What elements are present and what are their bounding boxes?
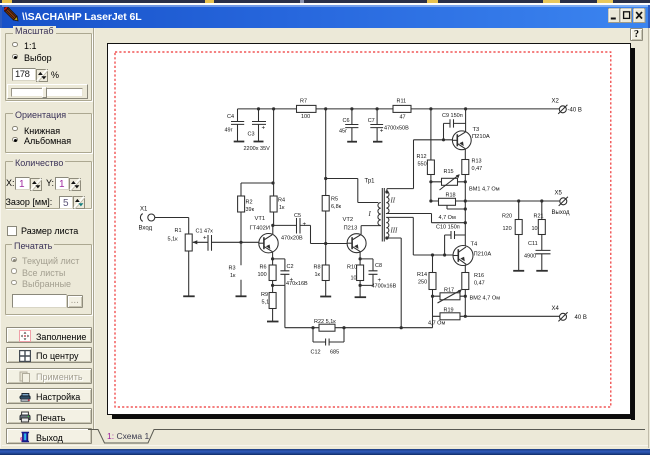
svg-text:R20: R20 xyxy=(502,214,512,220)
svg-text:5,1к: 5,1к xyxy=(168,237,179,243)
svg-text:R2: R2 xyxy=(246,200,253,206)
svg-text:4700x16В: 4700x16В xyxy=(372,284,397,290)
svg-text:+: + xyxy=(303,221,307,228)
svg-text:R6: R6 xyxy=(260,265,267,271)
svg-text:I: I xyxy=(368,211,372,218)
svg-text:П213: П213 xyxy=(344,226,358,232)
svg-text:R9: R9 xyxy=(261,292,268,298)
svg-text:С2: С2 xyxy=(287,264,294,270)
svg-text:С7: С7 xyxy=(368,118,375,124)
svg-text:550: 550 xyxy=(418,162,427,168)
svg-text:R1: R1 xyxy=(175,228,182,234)
svg-text:R15: R15 xyxy=(444,169,454,175)
svg-text:0,47: 0,47 xyxy=(472,166,483,172)
svg-text:470x20В: 470x20В xyxy=(281,236,303,242)
svg-text:X4: X4 xyxy=(552,306,560,312)
svg-text:+: + xyxy=(380,128,384,135)
svg-text:R11: R11 xyxy=(397,99,407,105)
svg-text:ВМ1 4,7 Ом: ВМ1 4,7 Ом xyxy=(469,187,500,193)
svg-text:1к: 1к xyxy=(279,205,285,211)
svg-text:С12: С12 xyxy=(311,350,321,356)
svg-text:4,7 Ом: 4,7 Ом xyxy=(439,215,456,221)
svg-text:10: 10 xyxy=(532,226,538,232)
svg-text:6,8к: 6,8к xyxy=(331,204,342,210)
svg-text:Схема 1: Схема 1 xyxy=(117,431,150,441)
svg-text:4900: 4900 xyxy=(524,254,536,260)
svg-text:+: + xyxy=(262,125,266,132)
svg-text:П210А: П210А xyxy=(472,134,490,140)
svg-text:R3: R3 xyxy=(229,266,236,272)
svg-text:1к: 1к xyxy=(230,273,236,279)
svg-text:2200x 35V: 2200x 35V xyxy=(244,146,271,152)
svg-text:R10: R10 xyxy=(347,265,357,271)
svg-text:X1: X1 xyxy=(140,207,148,213)
svg-text:1к: 1к xyxy=(315,272,321,278)
svg-text:II: II xyxy=(390,198,396,205)
svg-text:С8: С8 xyxy=(375,263,382,269)
svg-text:Выход: Выход xyxy=(552,210,570,216)
svg-text:1:: 1: xyxy=(107,431,114,441)
svg-text:ВМ2 4,7 Ом: ВМ2 4,7 Ом xyxy=(470,296,501,302)
svg-text:250: 250 xyxy=(418,280,427,286)
svg-text:R4: R4 xyxy=(278,198,285,204)
svg-text:С5: С5 xyxy=(294,213,301,219)
svg-text:R7: R7 xyxy=(300,98,307,104)
svg-text:X5: X5 xyxy=(555,191,563,197)
svg-text:45г: 45г xyxy=(339,129,347,135)
svg-text:39к: 39к xyxy=(246,207,255,213)
svg-text:С10 150п: С10 150п xyxy=(436,225,460,231)
svg-text:R17: R17 xyxy=(444,288,454,294)
svg-text:R21: R21 xyxy=(534,214,544,220)
svg-text:R12: R12 xyxy=(417,154,427,160)
svg-text:49г: 49г xyxy=(225,128,233,134)
svg-text:47: 47 xyxy=(400,115,406,121)
svg-text:Тр1: Тр1 xyxy=(365,179,376,185)
svg-text:Вход: Вход xyxy=(139,226,153,232)
svg-text:С4: С4 xyxy=(227,114,234,120)
svg-text:10: 10 xyxy=(351,276,357,282)
svg-text:-40 В: -40 В xyxy=(568,108,582,114)
svg-text:+: + xyxy=(290,277,294,284)
svg-text:С9 150п: С9 150п xyxy=(442,113,463,119)
svg-text:ГТ402И: ГТ402И xyxy=(250,226,271,232)
svg-text:R16: R16 xyxy=(474,273,484,279)
svg-text:Т3: Т3 xyxy=(473,127,480,133)
svg-text:VT1: VT1 xyxy=(255,216,266,222)
svg-text:С3: С3 xyxy=(248,132,255,138)
svg-text:100: 100 xyxy=(258,272,267,278)
svg-text:С11: С11 xyxy=(528,241,538,247)
svg-text:R8: R8 xyxy=(314,265,321,271)
svg-text:120: 120 xyxy=(503,226,512,232)
svg-text:0,47: 0,47 xyxy=(474,281,485,287)
svg-text:4700x50В: 4700x50В xyxy=(384,126,409,132)
svg-text:+: + xyxy=(203,235,207,242)
svg-text:X2: X2 xyxy=(552,99,560,105)
svg-text:R19: R19 xyxy=(444,308,454,314)
svg-text:R13: R13 xyxy=(472,159,482,165)
svg-text:R22 5,1к: R22 5,1к xyxy=(314,319,336,325)
svg-text:40 В: 40 В xyxy=(575,315,587,321)
svg-text:R14: R14 xyxy=(417,272,427,278)
svg-text:100: 100 xyxy=(301,114,310,120)
svg-text:Т4: Т4 xyxy=(471,242,479,248)
svg-text:VT2: VT2 xyxy=(343,217,354,223)
svg-text:4,7 Ом: 4,7 Ом xyxy=(428,321,445,327)
svg-text:R18: R18 xyxy=(446,193,456,199)
svg-text:5,1: 5,1 xyxy=(262,300,270,306)
svg-text:R5: R5 xyxy=(331,197,338,203)
svg-text:С6: С6 xyxy=(343,118,350,124)
svg-text:+: + xyxy=(378,277,382,284)
svg-text:III: III xyxy=(390,228,399,235)
svg-text:685: 685 xyxy=(330,350,339,356)
svg-text:П210А: П210А xyxy=(474,252,492,258)
